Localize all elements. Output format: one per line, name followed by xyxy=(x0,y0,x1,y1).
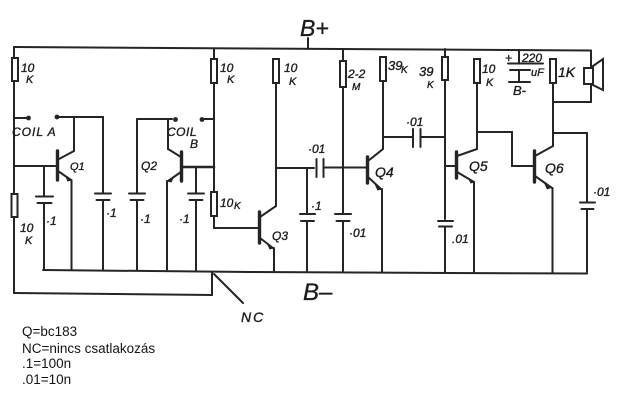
svg-text:2-2: 2-2 xyxy=(347,67,366,81)
svg-text:+: + xyxy=(505,51,512,65)
capacitor C5 .1 xyxy=(300,168,322,271)
capacitor CC2 .01 coupling xyxy=(406,115,445,147)
wire Q3 output node xyxy=(276,167,314,169)
svg-text:10: 10 xyxy=(220,61,234,75)
speaker LS1 xyxy=(584,51,603,103)
node B+ label xyxy=(300,15,329,41)
svg-text:·1: ·1 xyxy=(140,212,151,226)
transistor Q3 xyxy=(260,206,289,271)
wire Q5 to Q6 coupling xyxy=(477,132,534,166)
wire B+ stem xyxy=(307,38,309,49)
svg-text:K: K xyxy=(486,77,494,89)
wire coil B left lead xyxy=(137,118,172,120)
wire left vertical rail xyxy=(13,47,15,293)
resistor R8 39K bias xyxy=(419,49,448,219)
svg-text:Q3: Q3 xyxy=(272,229,288,243)
svg-text:M: M xyxy=(352,82,361,93)
svg-text:·01: ·01 xyxy=(406,115,423,129)
node coil B terminal 1 xyxy=(173,117,178,122)
wire feedback branch xyxy=(553,132,587,134)
capacitor C4 .1 xyxy=(179,167,204,270)
node B- label xyxy=(303,279,333,306)
svg-text:Q4: Q4 xyxy=(375,164,394,180)
svg-text:NC=nincs csatlakozás: NC=nincs csatlakozás xyxy=(22,341,155,356)
wire mid bias line xyxy=(213,49,215,228)
wire coil B right lead xyxy=(205,118,215,120)
node coil B terminal 2 xyxy=(200,117,205,122)
svg-text:·1: ·1 xyxy=(311,199,322,213)
capacitor C3 .1 xyxy=(129,119,151,270)
svg-text:K: K xyxy=(25,235,33,247)
svg-text:10: 10 xyxy=(220,196,234,210)
svg-text:Q=bc183: Q=bc183 xyxy=(22,324,77,339)
resistor R4 10K xyxy=(211,192,242,216)
svg-text:·1: ·1 xyxy=(179,212,190,226)
wire NC lower loop xyxy=(14,272,212,295)
resistor R3 10K xyxy=(211,59,235,86)
svg-text:.1=100n: .1=100n xyxy=(22,356,71,371)
wire top supply rail xyxy=(14,47,591,51)
transistor Q2 xyxy=(141,152,214,270)
resistor R2 10K xyxy=(12,194,34,247)
wire coil A left lead xyxy=(14,117,26,119)
capacitor C1 .1 xyxy=(36,166,57,270)
svg-text:·01: ·01 xyxy=(349,226,366,240)
svg-text:39: 39 xyxy=(419,64,433,79)
svg-text:COIL A: COIL A xyxy=(12,125,57,139)
transistor Q4 xyxy=(368,149,394,272)
svg-text:·01: ·01 xyxy=(308,142,325,156)
resistor R10 1K xyxy=(550,59,576,83)
resistor R6 2.2M bias xyxy=(340,49,366,214)
node coil A terminal 1 xyxy=(26,116,31,121)
svg-text:.01: .01 xyxy=(452,232,469,246)
wire Q4 collector riser xyxy=(382,81,384,149)
svg-text:B-: B- xyxy=(513,83,527,98)
node COIL A label xyxy=(12,125,57,139)
wire speaker return xyxy=(553,101,591,103)
node COIL B label xyxy=(167,125,198,151)
wire Q3 collector riser xyxy=(275,84,277,206)
svg-text:B+: B+ xyxy=(300,15,329,41)
node NC pointer xyxy=(214,274,265,325)
svg-text:·1: ·1 xyxy=(106,206,117,220)
wire Q1 collector riser xyxy=(74,116,103,118)
svg-text:.01=10n: .01=10n xyxy=(22,372,71,387)
svg-text:Q2: Q2 xyxy=(141,159,157,173)
wire Q1 base lead xyxy=(14,165,56,167)
svg-text:Q6: Q6 xyxy=(545,160,564,176)
wire Q5 collector riser xyxy=(476,83,478,149)
legend text xyxy=(22,324,155,387)
svg-text:K: K xyxy=(227,74,235,86)
capacitor C7 .01 xyxy=(438,221,469,272)
node coil A terminal 2 xyxy=(55,115,60,120)
svg-text:uF: uF xyxy=(531,67,545,79)
svg-text:10: 10 xyxy=(482,62,496,76)
capacitor C2 .1 xyxy=(95,117,117,270)
transistor Q6 xyxy=(535,146,564,273)
resistor R9 10K xyxy=(474,59,496,89)
svg-text:K: K xyxy=(289,76,297,88)
wire Q2 collector riser xyxy=(168,119,181,157)
wire Q6 collector riser xyxy=(552,84,554,146)
wire coil A right lead xyxy=(60,116,104,118)
transistor Q1 xyxy=(58,151,85,270)
svg-text:Q1: Q1 xyxy=(70,161,85,173)
svg-text:·1: ·1 xyxy=(46,214,57,228)
svg-text:10: 10 xyxy=(21,61,35,75)
capacitor CC1 .01 coupling xyxy=(308,142,366,177)
svg-text:NC: NC xyxy=(241,309,265,325)
svg-text:220: 220 xyxy=(521,51,542,65)
resistor R7 39K xyxy=(380,57,409,81)
capacitor C6 .01 xyxy=(335,214,366,271)
transistor Q5 xyxy=(445,149,488,272)
svg-text:·01: ·01 xyxy=(593,185,610,199)
svg-text:Q5: Q5 xyxy=(469,158,488,174)
capacitor C8 .01 feedback xyxy=(580,133,610,272)
svg-text:K: K xyxy=(26,74,34,86)
capacitor C9 220uF electrolytic xyxy=(505,50,545,98)
wire Q4 output lead xyxy=(383,136,412,138)
resistor R5 10K xyxy=(273,59,298,88)
svg-text:B: B xyxy=(190,137,198,151)
svg-text:10: 10 xyxy=(20,221,34,235)
svg-text:10: 10 xyxy=(284,61,298,75)
svg-text:1K: 1K xyxy=(558,64,576,80)
wire Q3 base lead xyxy=(214,227,258,229)
wire bottom ground rail xyxy=(43,270,587,274)
resistor R1 10K xyxy=(12,58,35,86)
svg-text:B–: B– xyxy=(303,279,333,306)
